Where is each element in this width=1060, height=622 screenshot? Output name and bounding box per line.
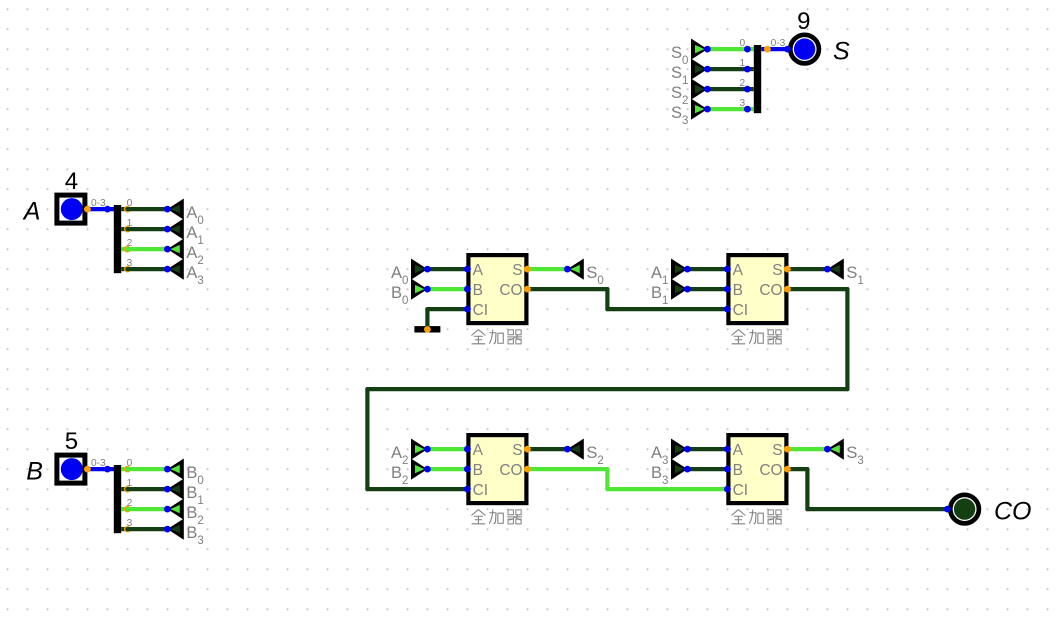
wire U3.S to tunnel S2	[527, 447, 567, 451]
input A (value 4)	[57, 195, 85, 223]
pin dot U3.CO	[524, 466, 531, 473]
wire tunnel S2 to merger	[707, 87, 747, 91]
svg-text:3: 3	[740, 98, 746, 109]
tunnel A0 (net A0)	[167, 199, 203, 228]
svg-text:4: 4	[65, 168, 78, 195]
node dot at tunnel A0 sink at U1.A	[424, 266, 431, 273]
svg-text:A: A	[473, 262, 484, 279]
pin number 3 at splitter SP-A	[127, 258, 133, 269]
tunnel S0 sink (net S0)	[567, 259, 603, 288]
wire tunnel B0 to U1.B	[427, 287, 467, 291]
svg-text:A: A	[733, 262, 744, 279]
label CO (output name)	[994, 498, 1032, 526]
svg-text:9: 9	[797, 8, 810, 35]
pin number 3 at splitter SP-B	[127, 518, 133, 529]
pin number 0 at splitter SP-B	[127, 458, 133, 469]
pin dot ground	[424, 326, 431, 333]
output S (value 9)	[788, 33, 821, 66]
merger MG-S input stub 1	[747, 67, 753, 71]
bus width label 0-3 at merger	[771, 38, 786, 49]
node dot merger MG-S in 2	[744, 86, 751, 93]
wire tunnel A2 to U3.A	[427, 447, 467, 451]
node dot at tunnel A3 sink at U4.A	[684, 446, 691, 453]
pin dot U2.S	[784, 266, 791, 273]
node dot merger MG-S in 1	[744, 66, 751, 73]
pin dot U2.CI	[724, 306, 731, 313]
svg-text:CO: CO	[759, 462, 782, 479]
node dot merger MG-S in 3	[744, 106, 751, 113]
tunnel S2 sink (net S2)	[567, 439, 603, 468]
splitter SP-B output stub 3	[121, 527, 127, 531]
pin dot U3.S	[524, 446, 531, 453]
wire ground to U1.CI	[427, 309, 467, 328]
label quanjiaqi of U4	[731, 510, 782, 524]
splitter SP-A output stub 3	[121, 267, 127, 271]
pin number 1 at splitter SP-A	[127, 218, 133, 229]
node dot at tunnel A0 (net A0)	[164, 206, 171, 213]
merger MG-S input stub 2	[747, 87, 753, 91]
splitter SP-B output stub 1	[121, 487, 127, 491]
pin dot U1.B	[464, 286, 471, 293]
node dot at tunnel B3 (net B3)	[164, 526, 171, 533]
wire tunnel S0 to merger	[707, 47, 747, 51]
splitter SP-A bar	[114, 205, 121, 273]
bus width label 0-3 at input A	[91, 198, 106, 209]
svg-text:B: B	[26, 458, 43, 486]
wire splitter SP-B.0 to tunnel B0	[127, 467, 167, 471]
svg-text:B: B	[733, 282, 743, 299]
node dot at tunnel B3 sink at U4.B	[684, 466, 691, 473]
node dot merger MG-S in 0	[744, 46, 751, 53]
pin number 3 at merger MG-S	[740, 98, 746, 109]
wire tunnel S3 to merger	[707, 107, 747, 111]
wire tunnel B1 to U2.B	[687, 287, 727, 291]
pin dot splitter SP-A out 0	[124, 206, 131, 213]
wire splitter SP-B.1 to tunnel B1	[127, 487, 167, 491]
pin dot U1.CI	[464, 306, 471, 313]
tunnel S3 sink (net S3)	[827, 439, 863, 468]
tunnel B2 sink at U3.B	[391, 459, 427, 488]
value label 4 of input A	[65, 168, 78, 195]
wire tunnel A3 to U4.A	[687, 447, 727, 451]
wire merger bus to output S	[767, 47, 787, 51]
pin dot U4.B	[724, 466, 731, 473]
wire B bus to splitter	[87, 467, 114, 471]
node dot at tunnel B2 sink at U3.B	[424, 466, 431, 473]
svg-text:A: A	[473, 442, 484, 459]
label quanjiaqi of U1	[471, 330, 522, 344]
wire U3.CO to U4.CI (carry c3)	[527, 469, 727, 489]
full adder U2 (bit 1) box	[728, 255, 786, 323]
svg-text:S: S	[512, 262, 522, 279]
pin dot U3.CI	[464, 486, 471, 493]
tunnel S3 source (net S3)	[671, 99, 707, 128]
svg-text:0: 0	[740, 38, 746, 49]
input B (value 5)	[57, 455, 85, 483]
wire splitter SP-A.1 to tunnel A1	[127, 227, 167, 231]
splitter SP-B output stub 2	[121, 507, 127, 511]
pin dot U3.B	[464, 466, 471, 473]
node dot output CO input pin	[944, 506, 951, 513]
value label 5 of input B	[65, 428, 78, 455]
tunnel A3 sink at U4.A	[651, 439, 687, 468]
label B (input name)	[26, 458, 43, 486]
svg-text:A: A	[22, 198, 41, 226]
wire U2.S to tunnel S1	[787, 267, 827, 271]
pin dot U4.S	[784, 446, 791, 453]
node B bus end	[104, 466, 111, 473]
full adder U3 (bit 2) box	[468, 435, 526, 503]
svg-text:B: B	[473, 282, 483, 299]
node dot at tunnel A3 (net A3)	[164, 266, 171, 273]
svg-text:B: B	[733, 462, 743, 479]
pin dot U2.A	[724, 266, 731, 273]
pin dot splitter SP-A out 2	[124, 246, 131, 253]
node dot at tunnel S0 sink (net S0)	[564, 266, 571, 273]
node dot at tunnel S1 sink (net S1)	[824, 266, 831, 273]
svg-text:5: 5	[65, 428, 78, 455]
wire U4.S to tunnel S3	[787, 447, 827, 451]
pin dot input A output	[84, 206, 91, 213]
tunnel A0 sink at U1.A	[391, 259, 427, 288]
tunnel B0 (net B0)	[167, 459, 203, 488]
svg-text:CO: CO	[499, 282, 522, 299]
pin number 1 at merger MG-S	[740, 58, 746, 69]
tunnel B1 sink at U2.B	[651, 279, 687, 308]
pin dot splitter SP-A out 3	[124, 266, 131, 273]
svg-text:CI: CI	[733, 302, 749, 319]
pin dot splitter SP-B out 1	[124, 486, 131, 493]
pin number 2 at merger MG-S	[740, 78, 746, 89]
wire tunnel A0 to U1.A	[427, 267, 467, 271]
node dot at tunnel S2 sink (net S2)	[564, 446, 571, 453]
pin dot U1.A	[464, 266, 471, 273]
label A (input name)	[22, 198, 41, 226]
tunnel B3 sink at U4.B	[651, 459, 687, 488]
svg-text:B: B	[473, 462, 483, 479]
splitter SP-B output stub 0	[121, 467, 127, 471]
merger MG-S input stub 3	[747, 107, 753, 111]
wire U2.CO to U3.CI (carry c2)	[367, 289, 847, 489]
pin dot input B output	[84, 466, 91, 473]
wire splitter SP-A.0 to tunnel A0	[127, 207, 167, 211]
svg-text:CO: CO	[994, 498, 1032, 526]
pin dot splitter SP-B out 0	[124, 466, 131, 473]
svg-text:CI: CI	[473, 482, 489, 499]
node A bus end	[104, 206, 111, 213]
wire U1.S to tunnel S0	[527, 267, 567, 271]
svg-text:2: 2	[740, 78, 746, 89]
pin number 1 at splitter SP-B	[127, 478, 133, 489]
node dot at tunnel S0 source (net S0)	[704, 46, 711, 53]
svg-text:S: S	[833, 38, 850, 66]
tunnel S1 source (net S1)	[671, 59, 707, 88]
pin dot merger MG-S out	[764, 46, 771, 53]
splitter SP-A output stub 1	[121, 227, 127, 231]
svg-text:CO: CO	[759, 282, 782, 299]
tunnel B1 (net B1)	[167, 479, 203, 508]
merger MG-S output stub	[761, 47, 767, 51]
wire tunnel S1 to merger	[707, 67, 747, 71]
splitter SP-B bar	[114, 465, 121, 533]
svg-text:CO: CO	[499, 462, 522, 479]
wire splitter SP-B.3 to tunnel B3	[127, 527, 167, 531]
tunnel A2 (net A2)	[167, 239, 203, 268]
tunnel B3 (net B3)	[167, 519, 203, 548]
pin dot splitter SP-A out 1	[124, 226, 131, 233]
label S (output name)	[833, 38, 850, 66]
pin dot U4.CI	[724, 486, 731, 493]
node dot at tunnel S2 source (net S2)	[704, 86, 711, 93]
pin number 2 at splitter SP-A	[127, 238, 133, 249]
node dot output S input pin	[784, 46, 791, 53]
pin dot U1.S	[524, 266, 531, 273]
node dot at tunnel A1 sink at U2.A	[684, 266, 691, 273]
node dot at tunnel S1 source (net S1)	[704, 66, 711, 73]
tunnel A2 sink at U3.A	[391, 439, 427, 468]
wire splitter SP-A.3 to tunnel A3	[127, 267, 167, 271]
svg-text:1: 1	[740, 58, 746, 69]
node dot at tunnel B1 sink at U2.B	[684, 286, 691, 293]
tunnel A3 (net A3)	[167, 259, 203, 288]
full adder U1 (bit 0) box	[468, 255, 526, 323]
pin dot splitter SP-B out 3	[124, 526, 131, 533]
merger MG-S bar	[754, 45, 761, 113]
pin dot U4.CO	[784, 466, 791, 473]
full adder U4 (bit 3) box	[728, 435, 786, 503]
value label 9 of output S	[797, 8, 810, 35]
tunnel B0 sink at U1.B	[391, 279, 427, 308]
tunnel A1 (net A1)	[167, 219, 203, 248]
svg-text:S: S	[512, 442, 522, 459]
svg-text:CI: CI	[473, 302, 489, 319]
node dot at tunnel B1 (net B1)	[164, 486, 171, 493]
tunnel S2 source (net S2)	[671, 79, 707, 108]
label quanjiaqi of U2	[731, 330, 782, 344]
pin dot U1.CO	[524, 286, 531, 293]
pin dot U2.CO	[784, 286, 791, 293]
wire A bus to splitter	[87, 207, 114, 211]
wire tunnel B2 to U3.B	[427, 467, 467, 471]
tunnel A1 sink at U2.A	[651, 259, 687, 288]
pin number 0 at splitter SP-A	[127, 198, 133, 209]
splitter SP-A output stub 2	[121, 247, 127, 251]
svg-text:S: S	[772, 262, 782, 279]
tunnel B2 (net B2)	[167, 499, 203, 528]
output CO (value 0)	[948, 493, 981, 526]
pin number 0 at merger MG-S	[740, 38, 746, 49]
label quanjiaqi of U3	[471, 510, 522, 524]
pin number 2 at splitter SP-B	[127, 498, 133, 509]
pin dot U3.A	[464, 446, 471, 453]
wire U1.CO to U2.CI (carry c1)	[527, 289, 727, 309]
node dot at tunnel B2 (net B2)	[164, 506, 171, 513]
bus width label 0-3 at input B	[91, 458, 106, 469]
node dot at tunnel A2 sink at U3.A	[424, 446, 431, 453]
svg-text:0-3: 0-3	[91, 198, 106, 209]
pin dot U4.A	[724, 446, 731, 453]
pin dot splitter SP-B out 2	[124, 506, 131, 513]
wire splitter SP-B.2 to tunnel B2	[127, 507, 167, 511]
tunnel S0 source (net S0)	[671, 39, 707, 68]
pin dot U2.B	[724, 286, 731, 293]
wire tunnel B3 to U4.B	[687, 467, 727, 471]
svg-text:0-3: 0-3	[91, 458, 106, 469]
svg-text:CI: CI	[733, 482, 749, 499]
tunnel S1 sink (net S1)	[827, 259, 863, 288]
svg-text:S: S	[772, 442, 782, 459]
wire U4.CO to output CO	[787, 469, 947, 509]
splitter SP-A output stub 0	[121, 207, 127, 211]
wire tunnel A1 to U2.A	[687, 267, 727, 271]
svg-text:A: A	[733, 442, 744, 459]
node dot at tunnel B0 sink at U1.B	[424, 286, 431, 293]
merger MG-S input stub 0	[747, 47, 753, 51]
node dot at tunnel S3 sink (net S3)	[824, 446, 831, 453]
node dot at tunnel A2 (net A2)	[164, 246, 171, 253]
node dot at tunnel B0 (net B0)	[164, 466, 171, 473]
ground symbol	[414, 326, 440, 332]
node dot at tunnel S3 source (net S3)	[704, 106, 711, 113]
wire splitter SP-A.2 to tunnel A2	[127, 247, 167, 251]
node dot at tunnel A1 (net A1)	[164, 226, 171, 233]
